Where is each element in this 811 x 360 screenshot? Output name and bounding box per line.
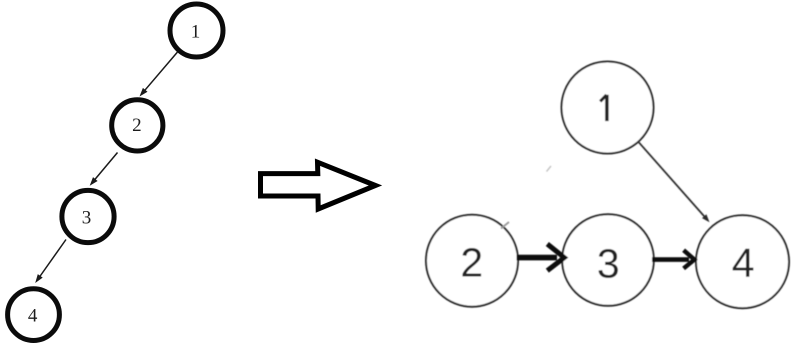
svg-text:4: 4 <box>28 305 38 326</box>
svg-text:1: 1 <box>191 22 201 43</box>
svg-text:2: 2 <box>460 240 483 286</box>
svg-text:2: 2 <box>132 115 142 136</box>
svg-text:3: 3 <box>82 207 92 228</box>
svg-text:4: 4 <box>732 240 755 286</box>
svg-text:3: 3 <box>597 241 620 287</box>
